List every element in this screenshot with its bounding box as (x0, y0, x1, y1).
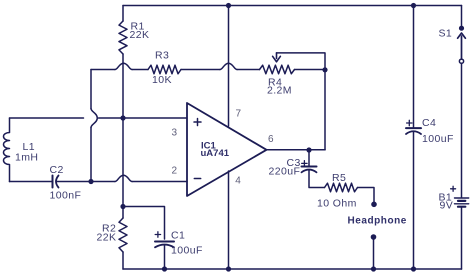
capacitor C3 curved plate (302, 170, 317, 173)
inductor L1 (4, 118, 10, 182)
arrow R4 wiper (273, 53, 281, 62)
node junction R2 / C1 (120, 204, 125, 209)
node headphone terminal upper (371, 202, 377, 208)
svg-text:3: 3 (172, 128, 178, 139)
resistor R4 (preset) (260, 65, 295, 74)
capacitor C1 top plate (155, 241, 174, 243)
svg-text:22K: 22K (97, 232, 117, 244)
wire R4 wiper link (277, 53, 326, 70)
switch S1 top contact (460, 26, 464, 30)
wire R1 top stub (122, 6, 124, 22)
op-amp minus input marking (194, 178, 200, 180)
capacitor C1 plus sign (155, 232, 160, 237)
wire R3 left corner (91, 69, 115, 71)
node C4 ground junction (411, 266, 416, 271)
capacitor C3 top plate (302, 166, 317, 168)
resistor R3 (148, 65, 181, 74)
svg-text:10 Ohm: 10 Ohm (317, 198, 357, 210)
node headphone ground junction (371, 266, 376, 271)
svg-text:C2: C2 (50, 164, 64, 176)
wire C3 top stub (308, 150, 310, 166)
svg-text:uA741: uA741 (201, 148, 230, 159)
wire R4 right lead (295, 69, 326, 71)
battery B1 short plate 2 (458, 206, 465, 208)
wire S1 to battery (461, 63, 463, 197)
wire hop over R1 branch (115, 63, 132, 69)
wire L1 bottom to C2 (10, 181, 53, 183)
wire hop over R2 branch (115, 175, 132, 181)
wire C2 to pin2 with hop (57, 181, 187, 183)
svg-text:10K: 10K (152, 74, 172, 86)
svg-text:220uF: 220uF (269, 166, 301, 178)
wire C4 bottom to ground rail (413, 132, 415, 269)
battery B1 short plate 1 (458, 200, 465, 202)
wire R1-R2 branch through crossing (122, 118, 124, 207)
svg-text:Headphone: Headphone (348, 216, 407, 227)
svg-text:1mH: 1mH (15, 152, 38, 164)
svg-text:100nF: 100nF (50, 190, 82, 202)
capacitor C2 right curved plate (56, 176, 59, 188)
node pin7 rail junction (226, 3, 231, 8)
wire hop to R4 (237, 69, 260, 71)
wire R3 left branch vertical (90, 70, 92, 182)
capacitor C4 curved plate (406, 131, 421, 134)
wire junction to C1 (123, 207, 165, 240)
capacitor C2 left plate (52, 176, 54, 188)
wire pin 7 to top rail (228, 6, 230, 127)
svg-text:S1: S1 (439, 28, 453, 40)
wire feedback from R4 (324, 70, 326, 150)
op-amp IC1 uA741 triangle (187, 103, 267, 196)
wire battery to bottom rail (461, 207, 463, 269)
svg-text:C4: C4 (422, 117, 436, 129)
battery B1 long plate 1 (455, 197, 469, 199)
wire C4 from top rail (413, 6, 415, 128)
svg-text:2.2M: 2.2M (267, 85, 292, 97)
svg-text:9V: 9V (440, 200, 454, 212)
svg-text:2: 2 (172, 166, 178, 177)
wire hop over pin7 line (220, 63, 237, 69)
svg-text:100uF: 100uF (171, 245, 203, 257)
wire top supply rail (123, 5, 462, 7)
op-amp plus input marking (194, 119, 201, 126)
capacitor C1 curved plate (155, 245, 174, 248)
wire C1 bottom (164, 245, 166, 269)
wire hop to R3 (132, 69, 148, 71)
switch S1 bottom contact (459, 59, 463, 63)
node C1 ground (162, 266, 167, 271)
wire output pin 6 (267, 149, 326, 151)
svg-text:R5: R5 (332, 172, 346, 184)
node pin4 ground junction (226, 266, 231, 271)
svg-text:C1: C1 (171, 230, 185, 242)
switch S1 lever arrow (458, 33, 466, 59)
svg-text:4: 4 (235, 176, 241, 187)
capacitor C4 plus sign (407, 120, 412, 125)
svg-text:22K: 22K (130, 29, 150, 41)
svg-text:7: 7 (236, 109, 242, 120)
battery B1 plus sign (451, 186, 456, 191)
wire R3 to hop (181, 69, 220, 71)
battery B1 long plate 2 (455, 203, 469, 205)
node C4 top rail junction (411, 3, 416, 8)
wire bottom ground rail (123, 268, 462, 270)
wire R1 bottom to node (122, 54, 124, 118)
capacitor C3 plus sign (302, 161, 307, 166)
capacitor C4 top plate (406, 127, 421, 129)
wire pin 4 to bottom rail (228, 171, 230, 269)
wire right rail top segment to S1 (461, 6, 463, 27)
node junction R4 / wiper / feedback (322, 67, 327, 72)
resistor R2 (119, 218, 127, 252)
wire C3 to R5 (309, 170, 325, 188)
node output / C3 tap (306, 147, 311, 152)
wire headphone lower to ground rail (373, 239, 375, 269)
svg-text:6: 6 (268, 134, 274, 145)
wire noninverting input (L1 top to pin 3) with hop (10, 117, 188, 119)
node headphone terminal lower (371, 234, 377, 240)
wire hop detour of vertical R3 branch over pin3 wire (91, 109, 97, 128)
wire R2 top stub (122, 207, 124, 219)
resistor R5 (325, 183, 358, 192)
wire R5 to headphone terminal (358, 188, 375, 203)
node junction R1 bottom / pin3 wire (120, 115, 125, 120)
wire R2 bottom to ground rail (122, 252, 124, 269)
node junction C2 wire / R3 branch (88, 179, 93, 184)
svg-text:R3: R3 (155, 50, 169, 62)
resistor R1 (119, 21, 127, 54)
svg-text:100uF: 100uF (422, 133, 454, 145)
